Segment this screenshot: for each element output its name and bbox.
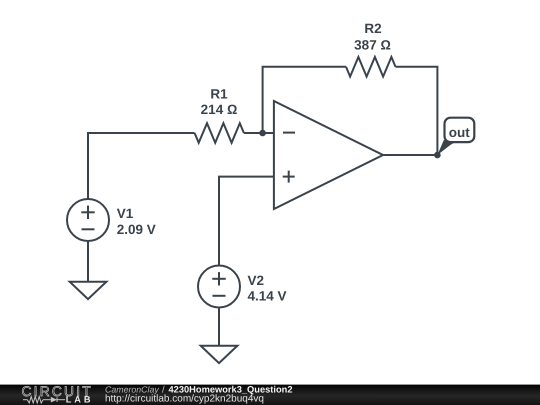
logo symbol wire left xyxy=(23,399,27,401)
ground under V2 xyxy=(201,346,238,363)
wire V2 to op-amp non-inverting input xyxy=(219,177,274,266)
op-amp minus sign xyxy=(283,132,295,134)
V1 minus sign xyxy=(82,228,95,230)
footer bar xyxy=(0,385,540,405)
V1 plus sign xyxy=(81,206,94,219)
logo resistor zigzag xyxy=(27,397,43,403)
svg-text:387 Ω: 387 Ω xyxy=(354,37,391,52)
logo wire mid xyxy=(43,399,51,401)
wire V1 top to R1 left lead xyxy=(88,133,195,199)
V2 minus sign xyxy=(213,295,226,297)
wire R2 right to output node xyxy=(396,67,438,155)
out flag tail xyxy=(437,140,459,155)
node out junction xyxy=(434,152,441,159)
svg-text:2.09 V: 2.09 V xyxy=(117,222,156,237)
svg-text:http://circuitlab.com/cyp2kn2b: http://circuitlab.com/cyp2kn2buq4vq xyxy=(105,394,264,405)
voltage source V1 xyxy=(67,199,109,241)
svg-text:R1: R1 xyxy=(210,87,228,102)
node junction at inverting input xyxy=(259,130,266,137)
wire R1 to op-amp inverting input xyxy=(244,132,274,134)
wire V1 to ground xyxy=(87,241,89,282)
svg-text:4.14 V: 4.14 V xyxy=(248,289,287,304)
wire op-amp output xyxy=(382,154,437,156)
svg-text:R2: R2 xyxy=(364,21,381,36)
ground under V1 xyxy=(70,282,107,299)
out flag box xyxy=(445,118,475,142)
logo diode bar xyxy=(56,397,58,402)
logo wire right xyxy=(57,399,65,401)
svg-text:LAB: LAB xyxy=(66,395,94,405)
wire V2 to ground xyxy=(218,308,220,346)
logo diode triangle xyxy=(51,397,57,403)
voltage source V2 xyxy=(198,266,240,308)
wire junction up to feedback xyxy=(263,67,346,133)
svg-text:out: out xyxy=(449,125,470,140)
V2 plus sign xyxy=(212,272,225,285)
resistor R2 xyxy=(346,57,396,77)
svg-text:214 Ω: 214 Ω xyxy=(201,102,238,117)
op-amp U1 triangle xyxy=(274,101,383,209)
resistor R1 xyxy=(195,123,244,143)
svg-text:V2: V2 xyxy=(248,273,265,288)
op-amp plus sign xyxy=(283,171,295,183)
svg-text:V1: V1 xyxy=(117,206,134,221)
